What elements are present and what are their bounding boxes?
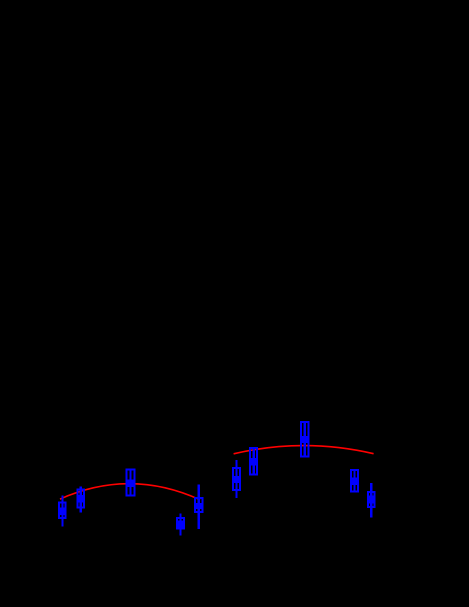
fit curve left (red parabola) bbox=[60, 484, 200, 500]
data point 7 box bbox=[250, 448, 257, 474]
data point 1 box bbox=[59, 503, 66, 518]
data point 10 box bbox=[368, 492, 375, 507]
data point 6 box bbox=[233, 468, 240, 490]
data point 9 box bbox=[351, 470, 358, 492]
data point 1 error bar bbox=[61, 496, 63, 527]
data point 2 error bar bbox=[80, 487, 82, 513]
data point 2 box bbox=[77, 490, 84, 508]
data point 5 marker bbox=[195, 503, 202, 509]
data point 7 marker bbox=[250, 458, 257, 466]
data point 6 error bar bbox=[236, 460, 238, 498]
data point 8 box bbox=[301, 422, 309, 456]
data point 6 marker bbox=[233, 476, 240, 483]
data point 9 error bar bbox=[353, 469, 355, 493]
data point 10 marker bbox=[368, 495, 375, 503]
data point 5 error bar bbox=[198, 485, 200, 529]
data point 2 marker bbox=[77, 495, 84, 502]
data point 3 error bar bbox=[130, 471, 132, 496]
data point 9 marker bbox=[351, 477, 358, 485]
data point 8 error bar bbox=[304, 422, 306, 456]
fit curve right (red parabola) bbox=[234, 446, 374, 454]
data point 4 error bar bbox=[179, 513, 181, 535]
data point 4 marker bbox=[177, 520, 184, 528]
data point 1 marker bbox=[59, 508, 66, 515]
data point 8 marker bbox=[301, 436, 309, 443]
data point 10 error bar bbox=[370, 483, 372, 518]
data point 4 box bbox=[177, 518, 184, 529]
data point 5 box bbox=[195, 498, 202, 512]
data point 3 box bbox=[127, 470, 135, 496]
data point 7 error bar bbox=[253, 447, 255, 475]
data point 3 marker bbox=[127, 480, 134, 488]
